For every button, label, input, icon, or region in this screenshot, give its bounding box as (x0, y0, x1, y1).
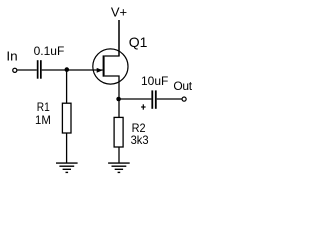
transistor Q1 source lead (105, 76, 119, 117)
capacitor C1 0.1uF (37, 60, 42, 78)
wire R2 to ground (118, 147, 120, 163)
resistor R1 1M (62, 103, 71, 133)
wire V+ to drain of Q1 (118, 20, 120, 56)
ground under R1 (56, 163, 78, 172)
resistor R2 3k3 (114, 117, 123, 147)
capacitor C2 10uF (151, 90, 156, 108)
svg-text:Out: Out (173, 79, 192, 93)
node junction C1/R1/gate (65, 67, 70, 72)
svg-text:10uF: 10uF (141, 74, 168, 88)
svg-text:In: In (6, 48, 17, 63)
svg-text:Q1: Q1 (129, 34, 148, 50)
svg-text:1M: 1M (35, 113, 51, 127)
wire C2 to output terminal (157, 98, 182, 100)
wire C1 to gate of Q1 (42, 69, 103, 71)
wire junction down to R1 (66, 70, 68, 103)
wire R1 to ground (66, 133, 68, 163)
output terminal (182, 97, 186, 101)
transistor Q1 gate arrow (97, 68, 103, 73)
wire input terminal to C1 (17, 69, 37, 71)
svg-text:3k3: 3k3 (131, 133, 149, 147)
input terminal (13, 68, 17, 72)
svg-text:0.1uF: 0.1uF (34, 44, 65, 58)
transistor Q1 circle (93, 49, 128, 84)
plus polarity mark of C2 (141, 104, 146, 109)
wire junction to C2 (119, 98, 151, 100)
svg-text:V+: V+ (111, 4, 127, 19)
node junction source/R2/C2 (116, 97, 121, 102)
transistor Q1 drain lead (105, 20, 119, 56)
ground under R2 (108, 163, 130, 172)
transistor Q1 channel bar (103, 55, 105, 76)
svg-text:R1: R1 (37, 100, 50, 114)
